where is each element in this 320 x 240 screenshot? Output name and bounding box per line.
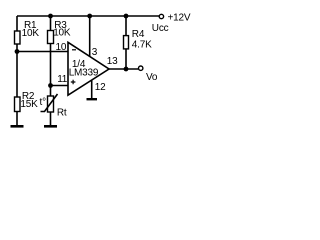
node dot rail-R4 — [124, 14, 129, 19]
svg-text:10K: 10K — [53, 28, 71, 39]
svg-text:10K: 10K — [22, 28, 40, 39]
wire pin 12 to ground — [91, 80, 93, 98]
svg-text:13: 13 — [107, 56, 118, 67]
wire R4 bottom lead — [125, 49, 127, 69]
svg-text:3: 3 — [92, 47, 98, 58]
ground under Rt — [44, 125, 57, 128]
svg-text:R4: R4 — [132, 29, 145, 40]
svg-text:t°: t° — [40, 97, 47, 108]
ground under pin 12 — [87, 98, 98, 100]
wire rail to R4 — [125, 16, 127, 36]
resistor R1 — [15, 31, 21, 44]
plus sign non-inverting input — [71, 80, 76, 85]
node dot rail-pin3 — [87, 14, 92, 19]
svg-text:Ucc: Ucc — [152, 23, 169, 34]
thermistor Rt body — [48, 96, 54, 112]
node dot rail-R3 — [48, 14, 53, 19]
svg-text:15K: 15K — [20, 99, 38, 110]
svg-text:LM339: LM339 — [69, 67, 99, 78]
wire node A to pin 10 — [17, 51, 68, 53]
svg-text:Vo: Vo — [146, 72, 158, 83]
svg-text:Rt: Rt — [57, 108, 67, 119]
wire rail to R3 — [50, 16, 52, 31]
op-amp U1 comparator triangle 1/4 LM339 — [68, 42, 109, 95]
svg-text:10: 10 — [56, 42, 67, 53]
wire pin 3 power — [89, 16, 91, 57]
node B junction dot — [48, 83, 53, 88]
ground under R2 — [11, 125, 24, 128]
wire R1 bottom to node A — [16, 44, 18, 52]
node dot output-R4 — [124, 67, 129, 72]
svg-text:11: 11 — [57, 74, 68, 85]
terminal Vo circle — [139, 66, 143, 70]
wire node B down to Rt — [50, 86, 52, 97]
thermistor Rt strike line — [41, 94, 58, 112]
resistor R4 — [124, 36, 129, 49]
svg-text:12: 12 — [95, 82, 106, 93]
wire node A down to R2 — [16, 52, 18, 98]
resistor R3 — [48, 31, 54, 44]
minus sign inverting input — [72, 49, 76, 51]
wire Rt bottom lead — [50, 112, 52, 125]
svg-text:4.7K: 4.7K — [132, 40, 152, 51]
terminal +12V circle — [159, 14, 163, 18]
wire R2 bottom lead — [16, 112, 18, 126]
wire top supply rail — [17, 15, 159, 17]
resistor R2 — [15, 97, 21, 112]
node A junction dot — [15, 49, 20, 54]
wire R3 bottom to node B — [50, 44, 52, 86]
svg-text:+12V: +12V — [168, 13, 191, 24]
wire left drop to R1 — [16, 16, 18, 31]
wire node B to pin 11 — [51, 85, 69, 87]
wire output pin 13 — [109, 68, 138, 70]
